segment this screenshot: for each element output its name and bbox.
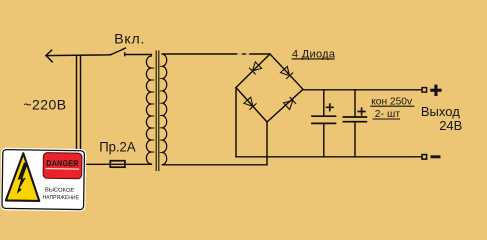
svg-text:~220В: ~220В — [23, 96, 66, 112]
svg-text:Выход: Выход — [421, 104, 460, 119]
svg-text:НАПРЯЖЕНИЕ: НАПРЯЖЕНИЕ — [42, 195, 79, 202]
svg-text:2- шт: 2- шт — [375, 109, 401, 120]
svg-text:Вкл.: Вкл. — [114, 31, 145, 47]
svg-text:24В: 24В — [439, 118, 462, 133]
svg-text:ВЫСОКОЕ: ВЫСОКОЕ — [45, 187, 75, 193]
svg-text:DANGER: DANGER — [46, 158, 79, 169]
svg-text:Пр.2А: Пр.2А — [99, 138, 136, 154]
